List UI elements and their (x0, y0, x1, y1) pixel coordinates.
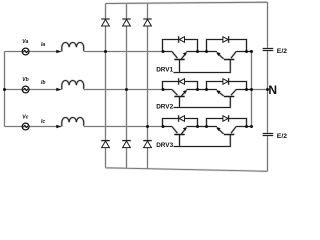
svg-text:Ic: Ic (41, 119, 45, 125)
svg-text:Vb: Vb (22, 77, 28, 83)
svg-text:N: N (268, 83, 277, 97)
svg-text:DRV2: DRV2 (156, 104, 173, 111)
svg-text:E/2: E/2 (277, 133, 287, 140)
svg-text:E/2: E/2 (277, 48, 287, 55)
svg-text:DRV1: DRV1 (156, 66, 173, 73)
svg-text:Ib: Ib (41, 80, 45, 86)
svg-text:Ia: Ia (41, 42, 45, 48)
svg-text:Va: Va (22, 39, 28, 45)
svg-text:Vc: Vc (22, 114, 28, 120)
svg-text:DRV3: DRV3 (156, 142, 173, 149)
